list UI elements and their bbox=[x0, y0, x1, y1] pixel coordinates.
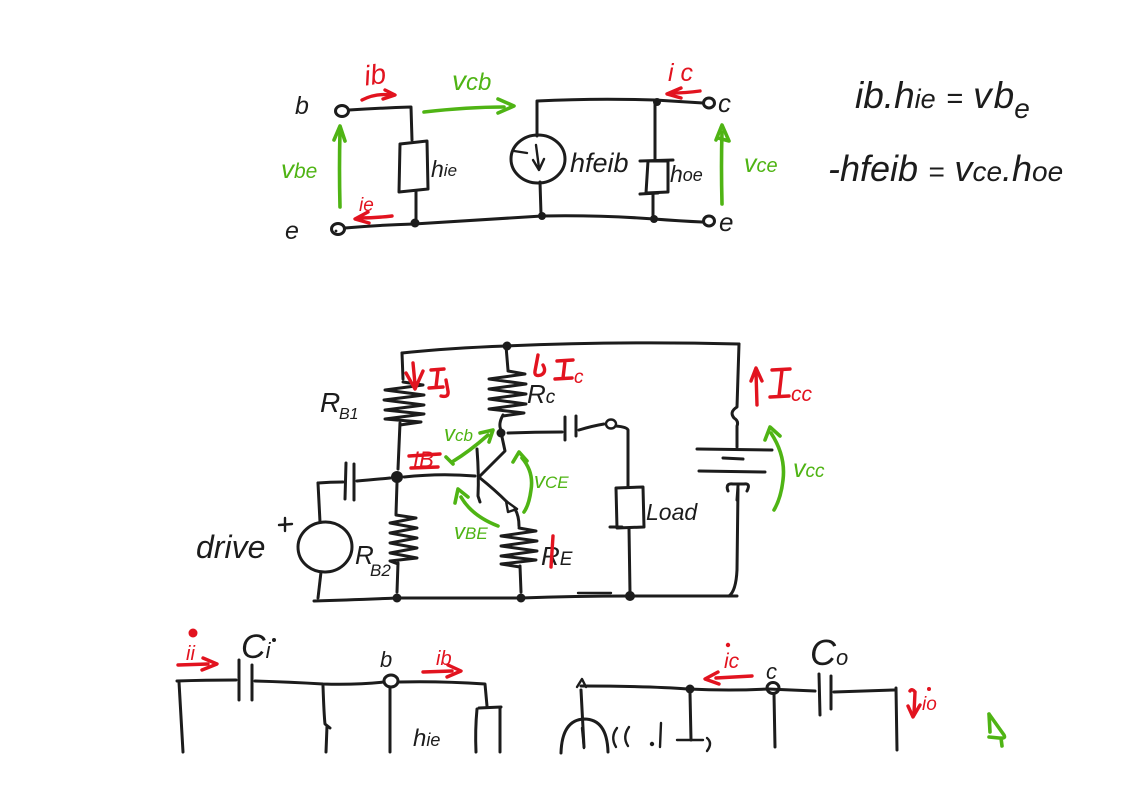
current source U1 hfe.ib bbox=[511, 135, 565, 183]
current source (cut, bottom-right) bbox=[561, 719, 608, 753]
label VBE with arrow (green) bbox=[454, 489, 498, 544]
label hie (bottom-left) bbox=[413, 725, 440, 752]
junction at hoe bottom bbox=[650, 215, 658, 223]
svg-text:B2: B2 bbox=[370, 561, 391, 580]
wire Co to right corner bbox=[834, 688, 897, 750]
wire left to Ci bbox=[177, 680, 236, 681]
label ic (red) bbox=[668, 59, 694, 87]
svg-text:-hfeib = vce.hoe: -hfeib = vce.hoe bbox=[828, 148, 1063, 189]
label Vbe (green) bbox=[281, 154, 317, 184]
terminal e (left) bbox=[332, 224, 345, 235]
equation -hfeib = vce.hoe bbox=[828, 148, 1063, 189]
svg-text:ib: ib bbox=[362, 58, 388, 92]
arrow ic (red) bbox=[667, 88, 700, 98]
label Ci bbox=[241, 628, 276, 666]
svg-text:ic: ic bbox=[724, 650, 740, 673]
node c terminal (bottom-right) bbox=[767, 683, 779, 694]
top wire source to c bbox=[537, 99, 703, 103]
label RB1 bbox=[320, 387, 359, 423]
plus sign bbox=[279, 518, 292, 531]
label Load bbox=[646, 499, 698, 525]
svg-text:hfeib: hfeib bbox=[570, 148, 629, 178]
svg-text:hie: hie bbox=[413, 725, 440, 752]
label Vcb (green) bbox=[452, 65, 491, 96]
wire (bottom-right circuit) bbox=[577, 679, 815, 691]
resistor RB2 bbox=[390, 483, 417, 592]
terminal e (right) bbox=[704, 216, 715, 226]
svg-text:drive: drive bbox=[196, 529, 265, 565]
svg-text:Load: Load bbox=[646, 499, 698, 525]
junction at source bottom bbox=[538, 212, 546, 220]
label hoe bbox=[670, 161, 703, 187]
wire Cin to drive bbox=[318, 483, 320, 522]
svg-text:c: c bbox=[574, 367, 584, 388]
label Vce (green) bbox=[744, 150, 778, 178]
junction at hoe top bbox=[653, 98, 661, 106]
capacitor Ci bbox=[239, 660, 252, 700]
label ib (red, bottom-left) bbox=[436, 648, 452, 670]
svg-text:e: e bbox=[285, 217, 299, 245]
transistor Q1 bbox=[477, 437, 519, 526]
label ib (red) bbox=[362, 58, 388, 92]
arrow Vbe (green) bbox=[334, 126, 345, 207]
label io with down arrow (red) bbox=[908, 687, 937, 717]
junction (bottom-right) bbox=[686, 685, 695, 694]
svg-text:cc: cc bbox=[791, 383, 813, 406]
svg-text:b: b bbox=[295, 92, 309, 120]
left wire down (bottom-left circuit) bbox=[179, 682, 183, 752]
label ie (red) bbox=[359, 195, 374, 216]
green cursor bbox=[989, 714, 1004, 746]
wire below node b bbox=[389, 688, 392, 752]
transistor Q1 base wire bbox=[404, 475, 475, 477]
label VCE with arrow (green) bbox=[513, 452, 569, 512]
junction at hie bottom bbox=[411, 219, 420, 228]
bottom wire (middle circuit) bbox=[314, 593, 737, 601]
arrow ib (red, bottom-left) bbox=[423, 665, 461, 677]
junction RB2 bottom bbox=[393, 594, 402, 603]
svg-text:e: e bbox=[719, 207, 733, 237]
bottom wire (top circuit) bbox=[345, 216, 702, 228]
svg-text:c: c bbox=[766, 659, 777, 684]
arrow Vce (green) bbox=[716, 125, 729, 204]
label hfeib (cut, bottom-right) bbox=[613, 723, 661, 747]
resistor hie (bottom-left, cut) bbox=[476, 707, 501, 752]
wire down from junction with tick bbox=[677, 693, 710, 751]
wire terminal to load bbox=[616, 426, 628, 486]
label Vcb with arrow (green) bbox=[444, 421, 493, 464]
capacitor Cout bbox=[565, 416, 576, 440]
svg-text:c: c bbox=[718, 88, 731, 118]
node e label (right) bbox=[719, 207, 733, 237]
capacitor Co bbox=[819, 674, 831, 715]
wire Cout to terminal bbox=[579, 424, 604, 430]
svg-text:i c: i c bbox=[668, 59, 694, 87]
label RB2 bbox=[355, 540, 391, 580]
label Co bbox=[810, 632, 848, 673]
arrow ie (red) bbox=[355, 212, 392, 223]
label RE (black with red stroke) bbox=[541, 536, 573, 571]
wire b to hie top bbox=[349, 107, 412, 140]
svg-text:hoe: hoe bbox=[670, 161, 703, 187]
label ic (red, bottom-right) bbox=[724, 643, 740, 673]
source drive bbox=[296, 520, 354, 598]
junction RE bottom bbox=[517, 594, 526, 603]
wire down at 323 bbox=[323, 686, 330, 752]
resistor RE bbox=[501, 528, 537, 592]
node e label (left) bbox=[285, 217, 299, 245]
label c (bottom-right) bbox=[766, 659, 777, 684]
resistor hoe bbox=[640, 104, 673, 217]
terminal b bbox=[336, 106, 349, 117]
junction at collector node bbox=[497, 429, 506, 438]
svg-text:R: R bbox=[320, 387, 340, 418]
terminal c bbox=[704, 98, 715, 108]
arrow ic (red, bottom-right) bbox=[705, 672, 752, 684]
svg-text:vce: vce bbox=[744, 150, 778, 178]
label Icc with up arrow (red) bbox=[751, 368, 813, 406]
node c label bbox=[718, 88, 731, 118]
wire Ci to node b bbox=[255, 681, 384, 684]
svg-text:vcb: vcb bbox=[452, 65, 491, 96]
node b label bbox=[295, 92, 309, 120]
svg-text:B1: B1 bbox=[339, 406, 359, 423]
battery VCC bbox=[697, 449, 772, 500]
svg-text:ii: ii bbox=[186, 643, 195, 665]
label IB crossed (red) bbox=[409, 447, 440, 472]
label b (bottom-left) bbox=[380, 647, 392, 672]
capacitor Cin bbox=[318, 463, 390, 500]
node b terminal (bottom-left) bbox=[384, 675, 398, 687]
label Rc bbox=[527, 379, 556, 409]
label hie bbox=[431, 156, 457, 182]
junction load bottom bbox=[625, 591, 635, 601]
wire down at left end bbox=[581, 690, 584, 747]
resistor RB1 bbox=[384, 353, 424, 469]
svg-text:b: b bbox=[380, 647, 392, 672]
label I1 with down arrow (red) bbox=[406, 363, 448, 396]
right wire (middle circuit) bbox=[729, 344, 739, 596]
label hfeib bbox=[570, 148, 629, 178]
label Vcc with arc arrow (green) bbox=[765, 427, 825, 510]
label Ic with down hook (red) bbox=[535, 355, 584, 388]
junction base node bbox=[391, 471, 403, 483]
resistor hie bbox=[399, 141, 428, 220]
current source top lead bbox=[536, 102, 539, 136]
current source bottom lead bbox=[540, 182, 541, 214]
wire below node c bbox=[774, 694, 775, 747]
arrow ii (red) bbox=[178, 658, 217, 670]
label drive bbox=[196, 529, 265, 565]
resistor RC bbox=[489, 346, 526, 430]
open terminal (output) bbox=[606, 420, 616, 429]
equation ib.hie = vbe bbox=[855, 75, 1030, 124]
wire node b to hie resistor bbox=[399, 682, 487, 706]
arrow Vcb (green) bbox=[424, 99, 514, 113]
junction at RC top bbox=[503, 342, 512, 351]
top wire (middle circuit) bbox=[402, 343, 739, 353]
label ii (red) bbox=[186, 629, 198, 666]
resistor Load bbox=[610, 487, 644, 593]
svg-text:io: io bbox=[922, 694, 937, 715]
arrow ib (red) bbox=[362, 90, 395, 100]
wire collector to Cout bbox=[508, 432, 562, 433]
